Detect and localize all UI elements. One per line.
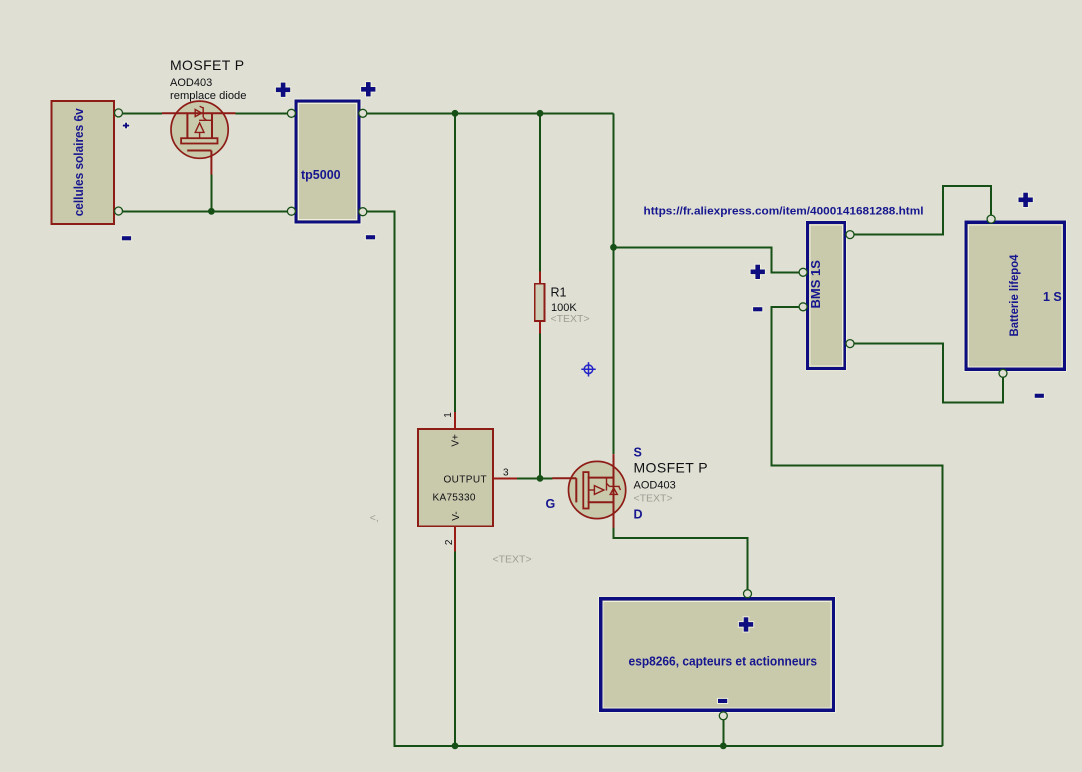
- junction node Q1 gate: [208, 208, 215, 215]
- junction node rail/R1: [537, 110, 544, 117]
- svg-text:1 S: 1 S: [1043, 290, 1062, 304]
- junction node BMS plus tee: [610, 244, 617, 251]
- pin circle solar +: [115, 109, 123, 117]
- block solar cells "cellules solaires 6v": [52, 101, 115, 224]
- wire node to BMS plus: [614, 247, 800, 272]
- svg-text:<TEXT>: <TEXT>: [551, 313, 590, 325]
- svg-text:2: 2: [444, 539, 455, 545]
- wire U1 pin2 to bottom rail: [454, 551, 456, 746]
- svg-text:D: D: [634, 508, 643, 522]
- svg-text:AOD403: AOD403: [634, 480, 676, 492]
- svg-text:https://fr.aliexpress.com/item: https://fr.aliexpress.com/item/400014168…: [644, 206, 924, 218]
- svg-text:remplace diode: remplace diode: [170, 90, 247, 102]
- wire BMS B+ to battery plus: [854, 186, 991, 235]
- marker plus left of tp5000: [275, 82, 291, 98]
- resistor R1 100K: [535, 271, 545, 333]
- pin circle battery +: [987, 215, 995, 223]
- svg-text:S: S: [634, 446, 642, 460]
- block BMS 1S: [806, 221, 848, 371]
- wire solar- to tp5000 IN-: [123, 210, 288, 212]
- marker plus in esp8266: [738, 616, 754, 632]
- wire R1 bottom to gate node: [539, 334, 541, 479]
- pin circle BMS B+: [846, 231, 854, 239]
- marker minus below tp5000: [365, 234, 376, 240]
- wire rail to R1 top: [539, 113, 541, 271]
- svg-text:1: 1: [443, 412, 454, 418]
- svg-text:<TEXT>: <TEXT>: [634, 493, 673, 505]
- svg-text:V-: V-: [451, 511, 462, 520]
- pin circle tp5000 in+: [287, 109, 295, 117]
- svg-text:Batterie lifepo4: Batterie lifepo4: [1007, 254, 1021, 336]
- marker plus at BMS input: [750, 264, 766, 280]
- wire BMS minus to bottom rail: [772, 307, 943, 746]
- svg-text:OUTPUT: OUTPUT: [443, 475, 487, 486]
- svg-text:MOSFET P: MOSFET P: [634, 460, 709, 476]
- pin circle tp5000 out+: [359, 109, 367, 117]
- pin circle BMS B-: [846, 340, 854, 348]
- wire tp5000 OUT- to bottom rail: [367, 212, 943, 746]
- block battery "Batterie lifepo4": [964, 220, 1068, 372]
- pin circle esp8266 +: [744, 590, 752, 598]
- block tp5000 charger: [294, 99, 362, 225]
- svg-text:MOSFET P: MOSFET P: [170, 57, 245, 73]
- wire Q1 to tp5000 IN+: [236, 112, 288, 114]
- wire esp8266 minus to bottom rail: [722, 720, 724, 746]
- wire solar+ to Q1: [123, 112, 162, 114]
- transistor Q2 MOSFET P AOD403: [552, 454, 626, 528]
- transistor Q1 MOSFET P AOD403 (remplace diode): [162, 101, 236, 175]
- svg-text:G: G: [546, 497, 556, 511]
- marker minus below battery: [1034, 393, 1045, 399]
- junction node R1/gate: [537, 475, 544, 482]
- marker minus below solar: [121, 235, 132, 241]
- junction node bottom rail / U1 pin2: [452, 743, 459, 750]
- pin circle battery -: [999, 369, 1007, 377]
- svg-text:3: 3: [503, 468, 509, 479]
- pin circle solar -: [115, 207, 123, 215]
- svg-text:BMS 1S: BMS 1S: [808, 260, 823, 309]
- voltage detector U1 KA75330: [418, 412, 517, 551]
- origin crosshair marker: [581, 362, 595, 376]
- svg-text:cellules solaires 6v: cellules solaires 6v: [72, 108, 86, 216]
- marker minus in esp8266: [717, 698, 728, 704]
- wire BMS B- to battery minus: [854, 344, 1003, 403]
- wire tp5000 OUT+ rail: [367, 112, 614, 114]
- svg-text:<,: <,: [370, 512, 379, 524]
- block esp8266 "esp8266, capteurs et actionneurs": [598, 596, 836, 713]
- marker minus at BMS input: [752, 306, 763, 312]
- pin circle BMS P-: [799, 303, 807, 311]
- svg-text:KA75330: KA75330: [433, 493, 476, 504]
- pin circle BMS P+: [799, 268, 807, 276]
- pin circle esp8266 -: [719, 712, 727, 720]
- junction node rail/U1 pin1: [452, 110, 459, 117]
- svg-text:V+: V+: [450, 434, 461, 447]
- svg-text:R1: R1: [551, 286, 567, 300]
- wire Q1 gate to minus rail: [210, 175, 212, 212]
- wire Q2 drain to esp8266 plus: [614, 528, 748, 590]
- pin circle tp5000 in-: [287, 207, 295, 215]
- svg-text:AOD403: AOD403: [170, 77, 212, 89]
- marker small plus at solar output: [122, 122, 130, 130]
- svg-text:tp5000: tp5000: [301, 168, 341, 182]
- marker plus right of tp5000: [360, 81, 376, 97]
- wire node to Q2 source: [613, 113, 615, 454]
- pin circle tp5000 out-: [359, 208, 367, 216]
- wire node to U1 pin1: [454, 113, 456, 412]
- marker plus above battery: [1018, 192, 1034, 208]
- svg-text:esp8266, capteurs et actionneu: esp8266, capteurs et actionneurs: [629, 655, 818, 669]
- junction node bottom rail / esp minus: [720, 743, 727, 750]
- svg-text:<TEXT>: <TEXT>: [493, 554, 532, 566]
- wire U1 output to Q2 gate: [517, 477, 553, 479]
